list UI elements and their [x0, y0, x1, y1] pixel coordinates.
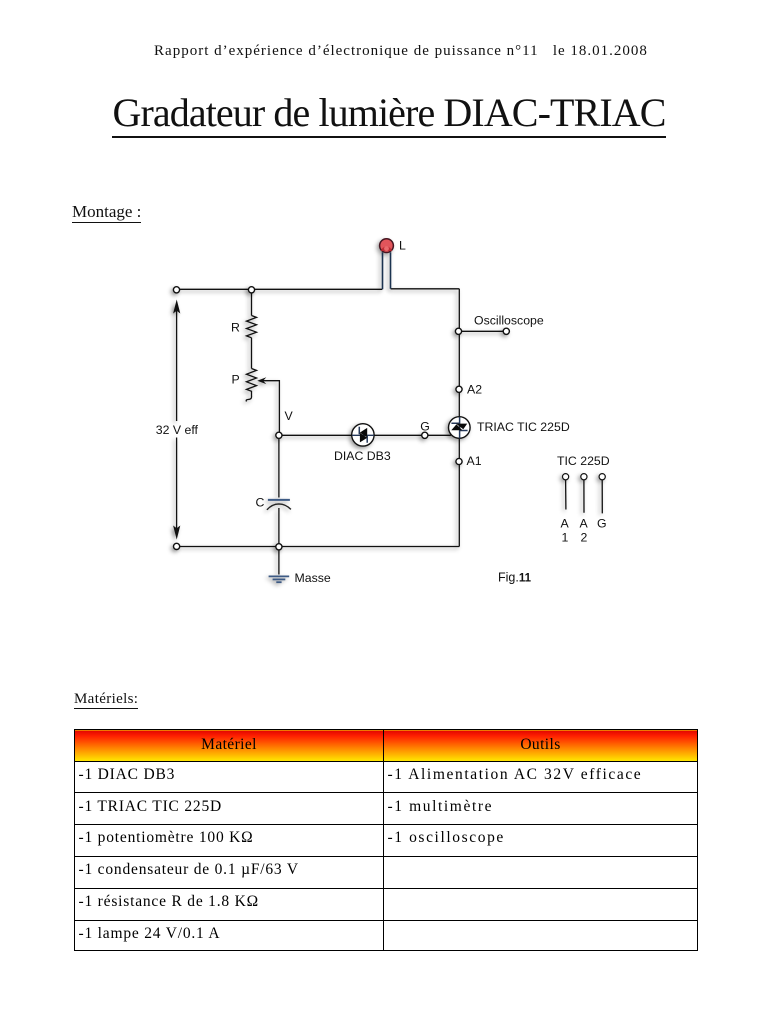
node oscilloscope left	[455, 328, 461, 334]
svg-text:A: A	[580, 516, 589, 530]
arrowhead wiper	[257, 377, 266, 384]
svg-text:L: L	[399, 238, 406, 252]
measure line 32 V eff	[176, 305, 178, 533]
svg-text:TIC 225D: TIC 225D	[557, 454, 610, 468]
svg-text:Oscilloscope: Oscilloscope	[474, 313, 544, 327]
wire top horizontal	[177, 288, 460, 291]
svg-text:DIAC DB3: DIAC DB3	[334, 449, 391, 463]
wire right vertical	[458, 289, 460, 547]
wire DIAC to G	[374, 434, 422, 436]
wire ground stem	[278, 550, 280, 575]
table materiel/outils	[74, 729, 698, 951]
section: Materiels	[74, 691, 138, 708]
capacitor C	[267, 500, 291, 510]
section: Montage	[72, 202, 141, 222]
wire oscilloscope branch	[462, 330, 504, 332]
arrowhead down (32 V eff)	[173, 526, 180, 540]
diac U1 DIAC DB3	[352, 424, 374, 446]
pin A1 circle	[563, 474, 569, 480]
title	[5, 89, 768, 136]
svg-text:R: R	[231, 320, 240, 334]
ground Masse	[269, 576, 290, 582]
wire P wiper to V	[261, 381, 279, 433]
svg-text:G: G	[420, 419, 430, 433]
header line	[17, 43, 768, 60]
arrowhead up (32 V eff)	[173, 300, 180, 314]
svg-text:V: V	[285, 409, 294, 423]
lamp L	[380, 239, 394, 290]
svg-text:TRIAC TIC 225D: TRIAC TIC 225D	[477, 420, 570, 434]
wire capacitor branch	[278, 438, 280, 543]
node top R	[248, 287, 254, 293]
node V	[276, 432, 282, 438]
node bottom-left	[174, 543, 180, 549]
wire G to triac gate	[428, 431, 457, 436]
pin G circle	[599, 474, 605, 480]
node G	[422, 432, 428, 438]
svg-text:Fig.11: Fig.11	[498, 571, 532, 585]
svg-text:G: G	[597, 516, 607, 530]
pinout TIC 225D	[563, 474, 606, 514]
labels	[156, 238, 610, 585]
svg-text:C: C	[256, 496, 265, 510]
node A1	[456, 458, 462, 464]
svg-text:A1: A1	[467, 454, 482, 468]
node oscilloscope right	[503, 328, 509, 334]
svg-text:1: 1	[562, 531, 569, 545]
pin A2 circle	[581, 474, 587, 480]
triac Q1 TRIAC TIC 225D	[449, 417, 471, 439]
svg-text:A: A	[561, 516, 570, 530]
wire V to DIAC	[282, 434, 352, 436]
potentiometer P	[246, 369, 256, 402]
node A2	[456, 386, 462, 392]
svg-text:2: 2	[581, 531, 588, 545]
node bottom C junction	[276, 544, 282, 550]
wire bottom horizontal	[177, 546, 460, 548]
svg-text:A2: A2	[467, 383, 482, 397]
resistor R	[247, 316, 257, 369]
svg-text:32 V eff: 32 V eff	[156, 423, 199, 437]
node top-left	[173, 287, 179, 293]
svg-text:Masse: Masse	[295, 571, 331, 585]
wire R branch top lead	[251, 292, 253, 315]
svg-text:P: P	[232, 373, 240, 387]
